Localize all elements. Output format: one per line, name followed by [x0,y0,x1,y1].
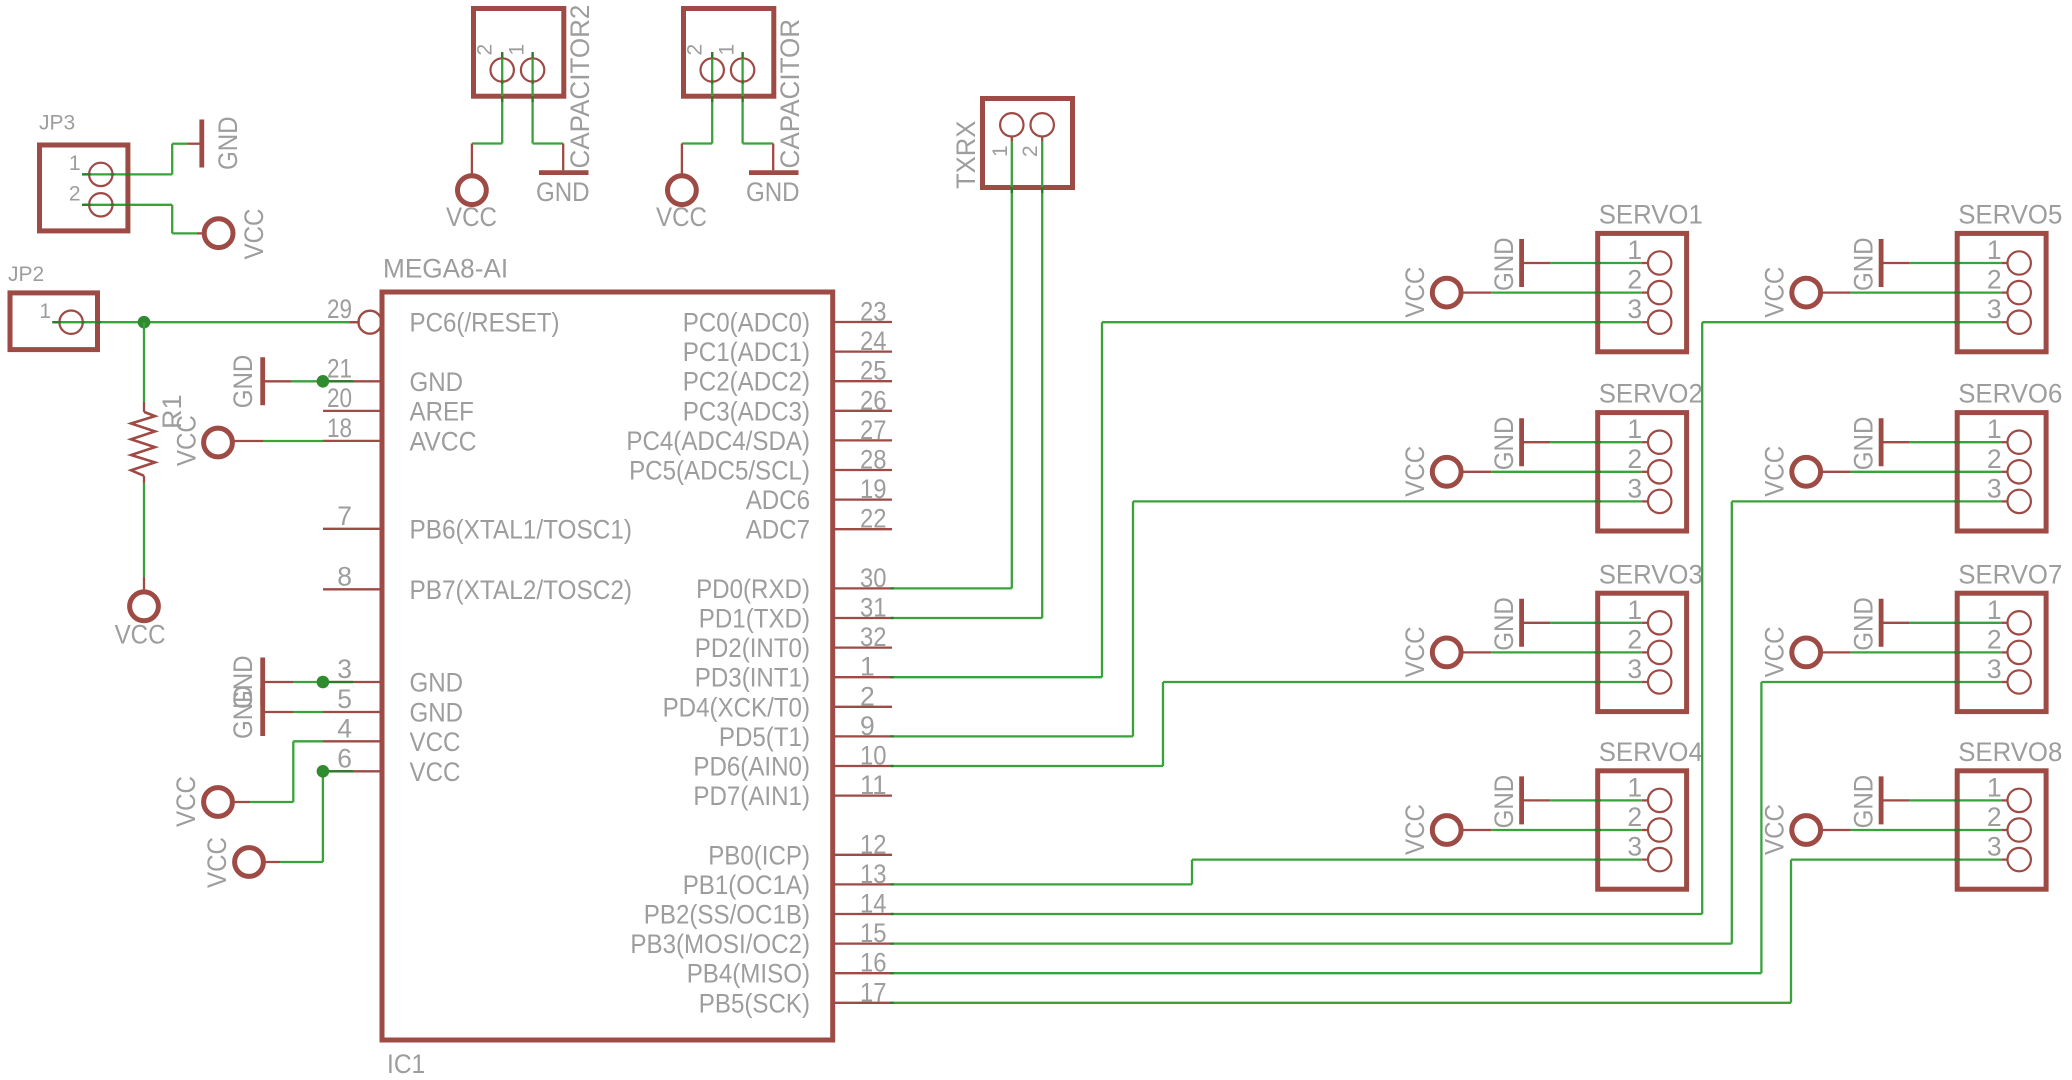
svg-text:GND: GND [1849,597,1879,651]
svg-text:GND: GND [1489,775,1519,829]
svg-text:18: 18 [327,413,352,443]
IC1 pin 10 PD6(AIN0) [693,741,892,782]
svg-text:SERVO7: SERVO7 [1958,559,2062,589]
svg-text:ADC7: ADC7 [746,515,810,545]
SERVO8 pad 3 [1987,832,2031,872]
SERVO4 label [1599,737,1703,767]
IC1 pin 7 PB6(XTAL1/TOSC1) [323,501,632,545]
connector SERVO7 body [1957,593,2046,711]
wire VCC to SERVO6.2 [1851,471,2008,473]
svg-text:VCC: VCC [1760,267,1790,318]
svg-text:3: 3 [1987,832,2002,862]
wire VCC to SERVO4.2 [1491,829,1648,831]
connector SERVO8 body [1957,771,2046,889]
JP2 label [8,263,44,286]
SERVO1 label [1599,200,1703,230]
ground symbol under CAPACITOR [746,173,800,207]
TXRX label [951,121,981,189]
ground symbol at SERVO7.1 [1849,597,1910,651]
junction /RESET net at R1 branch [138,316,151,329]
svg-text:SERVO6: SERVO6 [1958,379,2062,409]
svg-text:VCC: VCC [446,202,497,232]
SERVO4 pad 1 [1627,772,1671,812]
svg-text:VCC: VCC [1760,627,1790,678]
svg-text:PC5(ADC5/SCL): PC5(ADC5/SCL) [629,456,810,486]
VCC supply symbol at SERVO3.2 [1400,627,1491,678]
svg-text:PD2(INT0): PD2(INT0) [695,633,810,663]
svg-text:PC0(ADC0): PC0(ADC0) [683,308,810,338]
svg-text:VCC: VCC [1400,804,1430,855]
svg-text:PC6(/RESET): PC6(/RESET) [410,308,560,338]
IC1 pin 30 PD0(RXD) [696,563,892,604]
svg-text:2: 2 [1987,624,2002,654]
ground symbol under CAPACITOR2 [536,173,590,207]
wire GND to SERVO6.1 [1910,441,2008,443]
R1 reference label [157,394,187,429]
SERVO5 label [1958,200,2062,230]
svg-text:7: 7 [337,501,352,531]
svg-text:TXRX: TXRX [951,121,981,189]
svg-text:GND: GND [746,177,800,207]
wire GND to SERVO8.1 [1910,799,2008,801]
svg-text:27: 27 [860,415,887,445]
IC1 pin 20 AREF [323,383,474,427]
wire JP3.2 to VCC symbol [82,205,204,234]
IC1 pin 24 PC1(ADC1) [683,326,892,367]
wire JP3.1 to GND symbol [82,144,200,175]
svg-text:PD6(AIN0): PD6(AIN0) [693,752,810,782]
wire PB3 to SERVO6.3 [891,501,2008,943]
VCC supply symbol for IC1 pin 4 [171,776,250,827]
svg-text:2: 2 [1987,444,2002,474]
svg-text:26: 26 [860,385,887,415]
wire GND to SERVO1.1 [1550,262,1648,264]
svg-text:2: 2 [684,44,707,56]
svg-text:1: 1 [1627,772,1642,802]
VCC supply symbol for IC1 pin 18 AVCC [171,415,263,466]
svg-text:2: 2 [1627,265,1642,295]
connector SERVO6 body [1957,413,2046,531]
svg-text:GND: GND [1489,237,1519,291]
VCC supply symbol at SERVO6.2 [1760,446,1851,497]
svg-text:SERVO4: SERVO4 [1599,737,1703,767]
IC1 reference label [387,1049,425,1079]
SERVO5 pad 1 [1987,235,2031,275]
SERVO8 pad 2 [1987,802,2031,842]
svg-text:PD5(T1): PD5(T1) [719,722,810,752]
wire GND to pin 5 [293,711,323,713]
svg-text:VCC: VCC [239,209,269,260]
connector SERVO4 body [1598,771,1687,889]
svg-text:15: 15 [860,918,887,948]
wire over SERVO1 border [1595,263,1601,293]
SERVO2 label [1599,379,1703,409]
svg-text:VCC: VCC [410,757,461,787]
IC1 pin 8 PB7(XTAL2/TOSC2) [323,561,632,605]
svg-text:VCC: VCC [1400,267,1430,318]
ground symbol at IC1 pin 5 [228,685,293,739]
svg-text:2: 2 [474,44,497,56]
svg-text:2: 2 [1987,802,2002,832]
SERVO4 pad 2 [1627,802,1671,842]
svg-text:PC1(ADC1): PC1(ADC1) [683,337,810,367]
ground symbol for JP3.1 [202,116,243,170]
connector SERVO1 body [1598,233,1687,351]
VCC supply symbol at SERVO4.2 [1400,804,1491,855]
SERVO7 label [1958,559,2062,589]
SERVO5 pad 3 [1987,294,2031,334]
IC1 pin 15 PB3(MOSI/OC2) [630,918,892,959]
svg-text:8: 8 [337,561,352,591]
svg-text:IC1: IC1 [387,1049,425,1079]
svg-text:CAPACITOR: CAPACITOR [775,19,805,169]
svg-text:2: 2 [860,681,875,711]
svg-text:1: 1 [69,152,81,175]
svg-text:1: 1 [1987,235,2002,265]
IC1 pin 25 PC2(ADC2) [683,356,892,397]
wire over SERVO6 border [1954,442,1960,472]
SERVO2 pad 3 [1627,473,1671,513]
svg-text:GND: GND [1849,237,1879,291]
svg-text:1: 1 [1627,595,1642,625]
svg-text:24: 24 [860,326,887,356]
svg-text:5: 5 [337,684,352,714]
IC1 pin 31 PD1(TXD) [699,593,892,634]
wire PB5 to SERVO8.3 [891,860,2008,1003]
svg-text:VCC: VCC [656,202,707,232]
wire GND to SERVO4.1 [1550,799,1648,801]
SERVO1 pad 1 [1627,235,1671,275]
svg-text:1: 1 [989,145,1012,157]
svg-text:25: 25 [860,356,887,386]
IC1 pin 18 AVCC [323,413,477,457]
svg-text:SERVO2: SERVO2 [1599,379,1703,409]
svg-text:1: 1 [1987,414,2002,444]
IC1 pin 3 GND [323,654,463,698]
svg-text:13: 13 [860,859,887,889]
wire VCC to SERVO1.2 [1491,291,1648,293]
svg-text:3: 3 [1627,654,1642,684]
svg-text:GND: GND [1489,417,1519,471]
VCC supply symbol at SERVO7.2 [1760,627,1851,678]
wire VCC to pin 6 [280,771,353,862]
resistor R1 [131,322,155,483]
CAPACITOR2 pad 1 [506,44,545,82]
svg-text:2: 2 [1019,145,1042,157]
VCC supply symbol at SERVO2.2 [1400,446,1491,497]
svg-text:GND: GND [536,177,590,207]
connector JP3 body [40,145,128,231]
svg-text:3: 3 [1987,294,2002,324]
IC1 pin 2 PD4(XCK/T0) [663,681,892,722]
IC1 pin 19 ADC6 [746,474,892,515]
svg-text:PC4(ADC4/SDA): PC4(ADC4/SDA) [626,426,810,456]
svg-text:2: 2 [1987,265,2002,295]
svg-text:1: 1 [1987,595,2002,625]
IC1 pin 17 PB5(SCK) [699,977,892,1018]
svg-text:PB4(MISO): PB4(MISO) [687,959,810,989]
svg-text:31: 31 [860,593,887,623]
wire TXRX.2 to IC1 PD1 TXD [891,136,1043,618]
ground symbol at IC1 pin 21 [228,355,292,409]
svg-text:PD0(RXD): PD0(RXD) [696,574,810,604]
IC1 value label MEGA8-AI [383,254,508,284]
svg-text:1: 1 [1987,772,2002,802]
wire GND to SERVO2.1 [1550,441,1648,443]
svg-text:VCC: VCC [1760,446,1790,497]
svg-text:GND: GND [410,668,464,698]
SERVO3 label [1599,559,1703,589]
svg-text:GND: GND [1489,597,1519,651]
svg-text:GND: GND [410,367,464,397]
wire PB4 to SERVO7.3 [891,682,2008,973]
VCC supply symbol for IC1 pin 6 [202,837,280,888]
svg-text:3: 3 [337,654,352,684]
svg-text:28: 28 [860,445,887,475]
svg-text:21: 21 [327,353,352,383]
svg-text:AREF: AREF [410,396,474,426]
ground symbol at SERVO3.1 [1489,597,1550,651]
wire PB1 to SERVO4.3 [891,860,1648,885]
SERVO7 pad 1 [1987,595,2031,635]
capacitor CAPACITOR2 body [474,9,564,97]
SERVO3 pad 1 [1627,595,1671,635]
junction at pin 6 [317,765,330,778]
wire VCC to SERVO7.2 [1851,651,2008,653]
SERVO6 pad 2 [1987,444,2031,484]
svg-text:PB1(OC1A): PB1(OC1A) [683,870,810,900]
SERVO2 pad 1 [1627,414,1671,454]
svg-text:PC3(ADC3): PC3(ADC3) [683,396,810,426]
svg-text:30: 30 [860,563,887,593]
VCC supply symbol for JP3.2 [204,209,269,260]
wire over SERVO3 border [1595,623,1601,653]
IC1 pin 1 PD3(INT1) [695,652,892,693]
SERVO8 pad 1 [1987,772,2031,812]
junction at pin 3 [317,676,330,689]
svg-text:PB3(MOSI/OC2): PB3(MOSI/OC2) [630,929,810,959]
wire over SERVO4 border [1595,800,1601,830]
IC1 pin 11 PD7(AIN1) [693,770,892,811]
wire over SERVO2 border [1595,442,1601,472]
JP3 pin 1 pad [69,152,113,186]
svg-text:MEGA8-AI: MEGA8-AI [383,254,508,284]
wire VCC to SERVO5.2 [1851,291,2008,293]
svg-text:4: 4 [337,713,352,743]
svg-text:9: 9 [860,711,875,741]
svg-text:VCC: VCC [1760,804,1790,855]
VCC supply symbol at SERVO5.2 [1760,267,1851,318]
svg-text:PD1(TXD): PD1(TXD) [699,604,810,634]
IC1 pin 4 VCC [323,713,460,757]
svg-text:JP3: JP3 [39,112,75,135]
connector SERVO3 body [1598,593,1687,711]
CAPACITOR pad 1 [716,44,755,82]
CAPACITOR value label [775,19,805,169]
junction at pin 21 [317,375,330,388]
IC1 pin 32 PD2(INT0) [695,622,892,663]
svg-text:VCC: VCC [115,620,166,650]
wire GND to pin 3 [293,681,353,683]
svg-text:CAPACITOR2: CAPACITOR2 [565,5,595,169]
svg-text:17: 17 [860,977,887,1007]
svg-text:GND: GND [410,698,464,728]
svg-text:1: 1 [1627,235,1642,265]
svg-text:3: 3 [1627,473,1642,503]
JP3 label [39,112,75,135]
svg-text:10: 10 [860,741,887,771]
svg-text:20: 20 [327,383,352,413]
svg-text:VCC: VCC [171,776,201,827]
CAPACITOR2 pad 2 [474,44,514,82]
wire VCC to SERVO2.2 [1491,471,1648,473]
svg-text:PD3(INT1): PD3(INT1) [695,663,810,693]
svg-text:GND: GND [228,355,258,409]
VCC supply symbol below R1 [115,577,166,650]
IC1 pin 13 PB1(OC1A) [683,859,892,900]
svg-text:32: 32 [860,622,887,652]
svg-text:3: 3 [1987,654,2002,684]
wire VCC to SERVO3.2 [1491,651,1648,653]
SERVO7 pad 3 [1987,654,2031,694]
ground symbol at SERVO2.1 [1489,417,1550,471]
svg-text:12: 12 [860,829,887,859]
IC1 pin 14 PB2(SS/OC1B) [644,889,892,930]
wire PD3 to SERVO1.3 [891,322,1648,677]
svg-text:PD4(XCK/T0): PD4(XCK/T0) [663,692,810,722]
VCC supply symbol under CAPACITOR [656,176,707,232]
TXRX pad 1 [989,113,1024,157]
svg-text:PB6(XTAL1/TOSC1): PB6(XTAL1/TOSC1) [410,514,633,544]
IC1 pin 16 PB4(MISO) [687,948,892,989]
svg-text:VCC: VCC [410,727,461,757]
SERVO4 pad 3 [1627,832,1671,872]
SERVO8 label [1958,737,2062,767]
svg-text:29: 29 [327,294,352,324]
wire TXRX.1 to IC1 PD0 RXD [891,136,1012,588]
svg-text:1: 1 [39,300,51,323]
svg-text:3: 3 [1987,473,2002,503]
wire VCC to SERVO8.2 [1851,829,2008,831]
svg-text:1: 1 [506,44,529,56]
svg-text:VCC: VCC [202,837,232,888]
svg-text:23: 23 [860,297,887,327]
svg-text:14: 14 [860,889,887,919]
connector TXRX body [983,99,1073,188]
wire JP2.1 to IC1 pin29 /RESET net [52,321,359,323]
IC1 pin 6 VCC [323,743,460,787]
IC1 pin 23 PC0(ADC0) [683,297,892,338]
wire GND to pin 21 [292,380,353,382]
VCC supply symbol at SERVO1.2 [1400,267,1491,318]
SERVO3 pad 2 [1627,624,1671,664]
svg-text:PB5(SCK): PB5(SCK) [699,988,810,1018]
ground symbol at SERVO6.1 [1849,417,1910,471]
wire over SERVO7 border [1954,623,1960,653]
IC1 pin 26 PC3(ADC3) [683,385,892,426]
wire CAPACITOR.1 to GND [743,52,774,170]
svg-text:SERVO5: SERVO5 [1958,200,2062,230]
IC1 pin 5 GND [323,684,463,728]
connector SERVO5 body [1957,233,2046,351]
svg-text:PB0(ICP): PB0(ICP) [708,840,810,870]
SERVO1 pad 2 [1627,265,1671,305]
wire PB2 to SERVO5.3 [891,322,2008,914]
wire GND to SERVO5.1 [1910,262,2008,264]
IC1 pin 28 PC5(ADC5/SCL) [629,445,892,486]
svg-text:16: 16 [860,948,887,978]
connector SERVO2 body [1598,413,1687,531]
IC1 pin 21 GND [323,353,463,397]
wire AVCC [263,440,323,442]
svg-text:2: 2 [1627,444,1642,474]
SERVO1 pad 3 [1627,294,1671,334]
ground symbol at IC1 pin 3 [228,655,293,709]
SERVO5 pad 2 [1987,265,2031,305]
svg-text:1: 1 [1627,414,1642,444]
SERVO6 label [1958,379,2062,409]
svg-text:1: 1 [860,652,875,682]
ground symbol at SERVO8.1 [1849,775,1910,829]
SERVO3 pad 3 [1627,654,1671,694]
ground symbol at SERVO1.1 [1489,237,1550,291]
svg-text:PB2(SS/OC1B): PB2(SS/OC1B) [644,900,810,930]
wire R1 to VCC symbol [143,483,145,577]
SERVO2 pad 2 [1627,444,1671,484]
svg-text:GND: GND [213,116,243,170]
VCC supply symbol under CAPACITOR2 [446,176,497,232]
svg-text:AVCC: AVCC [410,426,477,456]
svg-text:PD7(AIN1): PD7(AIN1) [693,781,810,811]
svg-text:1: 1 [716,44,739,56]
svg-text:19: 19 [860,474,887,504]
JP2 pin 1 pad [39,300,82,334]
TXRX pad 2 [1019,113,1054,157]
wire CAPACITOR2.2 to VCC [472,52,502,173]
svg-text:11: 11 [860,770,887,800]
svg-text:GND: GND [228,685,258,739]
wire GND to SERVO7.1 [1910,622,2008,624]
CAPACITOR2 value label [565,5,595,169]
wire PD6 to SERVO3.3 [891,682,1648,766]
svg-text:2: 2 [1627,624,1642,654]
IC1 pin 12 PB0(ICP) [708,829,892,870]
svg-text:VCC: VCC [1400,446,1430,497]
JP3 pin 2 pad [69,182,113,216]
svg-text:GND: GND [1849,775,1879,829]
IC1 pin 22 ADC7 [746,504,892,545]
CAPACITOR pad 2 [684,44,724,82]
IC1 pin 27 PC4(ADC4/SDA) [626,415,892,456]
svg-text:3: 3 [1627,832,1642,862]
SERVO7 pad 2 [1987,624,2031,664]
wire PD5 to SERVO2.3 [891,501,1648,736]
VCC supply symbol at SERVO8.2 [1760,804,1851,855]
svg-text:22: 22 [860,504,887,534]
svg-text:ADC6: ADC6 [746,485,810,515]
wire CAPACITOR2.1 to GND [533,52,564,170]
IC U1 MEGA8-AI body [382,292,833,1040]
IC1 pin 9 PD5(T1) [719,711,892,752]
svg-text:6: 6 [337,743,352,773]
svg-text:VCC: VCC [171,415,201,466]
wire over SERVO8 border [1954,800,1960,830]
svg-text:VCC: VCC [1400,627,1430,678]
svg-text:2: 2 [69,182,81,205]
svg-text:JP2: JP2 [8,263,44,286]
IC1 pin 29 PC6(/RESET) [327,294,560,338]
svg-text:GND: GND [1849,417,1879,471]
